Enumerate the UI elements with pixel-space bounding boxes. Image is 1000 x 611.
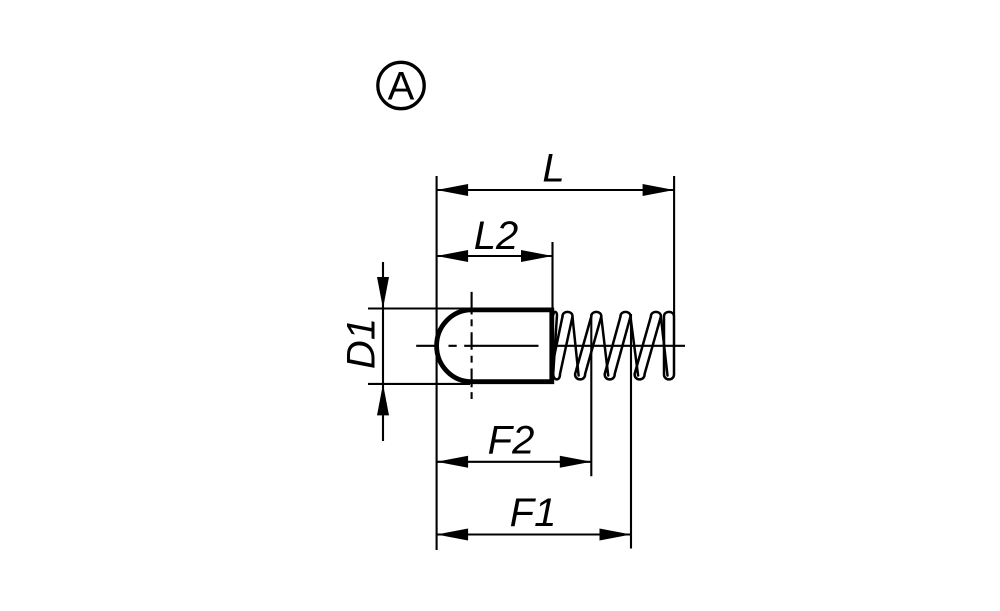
extension line right for F2 (spring coil) bbox=[590, 314, 592, 476]
dimension L2 arrow right bbox=[521, 250, 553, 262]
svg-text:L2: L2 bbox=[474, 214, 519, 258]
svg-text:L: L bbox=[542, 147, 564, 191]
extension line bottom for D1 bbox=[368, 383, 470, 385]
extension line right for F1 (spring coil) bbox=[630, 314, 632, 549]
vertical centerline bbox=[471, 292, 473, 399]
compression spring front line coil 4 bbox=[661, 317, 668, 376]
view indicator circle A bbox=[378, 62, 424, 108]
svg-text:F2: F2 bbox=[488, 419, 535, 463]
compression spring coil 4 (bottom turn B3, rise, top turn T4, back line) bbox=[635, 312, 661, 379]
compression spring front line coil 2 bbox=[601, 317, 608, 376]
svg-text:D1: D1 bbox=[339, 318, 383, 369]
svg-text:F1: F1 bbox=[510, 491, 557, 535]
dimension F1 arrow left bbox=[437, 529, 469, 541]
dimension L2 arrow left bbox=[437, 250, 469, 262]
compression spring front line coil 3 bbox=[631, 317, 639, 376]
dimension D1 line bbox=[382, 262, 384, 441]
horizontal centerline bbox=[416, 345, 685, 347]
dimension L arrow left bbox=[437, 184, 469, 196]
compression spring coil 2 (bottom turn B1, rise, top turn T2, back line) bbox=[575, 312, 601, 379]
extension line right for L (spring end) bbox=[673, 176, 675, 315]
compression spring coil 1 (start cap, end-coil leg, bottom turn B0, rise to top turn T1) bbox=[553, 312, 572, 380]
compression spring front line coil 1 bbox=[573, 317, 579, 376]
compression spring end coil (closed vertical turn T5/B4) bbox=[664, 312, 674, 379]
dimension F2 arrow left bbox=[437, 456, 469, 468]
compression spring back line of coil 1 bbox=[551, 317, 563, 373]
extension line right for L2 (plunger face) bbox=[551, 242, 553, 312]
dimension D1 arrow top bbox=[377, 277, 389, 309]
dimension F1 arrow right bbox=[600, 529, 632, 541]
plunger body outline (dome nose + cylinder) bbox=[437, 310, 552, 382]
dimension L2 line bbox=[437, 255, 553, 257]
svg-text:A: A bbox=[388, 65, 415, 109]
dimension F2 arrow right bbox=[560, 456, 592, 468]
dimension F1 line bbox=[437, 533, 631, 535]
compression spring coil 3 (bottom turn B2, rise, top turn T3, back line) bbox=[605, 312, 631, 379]
extension line left (dome tip datum) bbox=[436, 176, 438, 550]
dimension L line bbox=[437, 189, 674, 191]
dimension L arrow right bbox=[643, 184, 675, 196]
dimension F2 line bbox=[437, 461, 592, 463]
extension line top for D1 bbox=[368, 307, 470, 309]
dimension D1 arrow bottom bbox=[377, 384, 389, 416]
